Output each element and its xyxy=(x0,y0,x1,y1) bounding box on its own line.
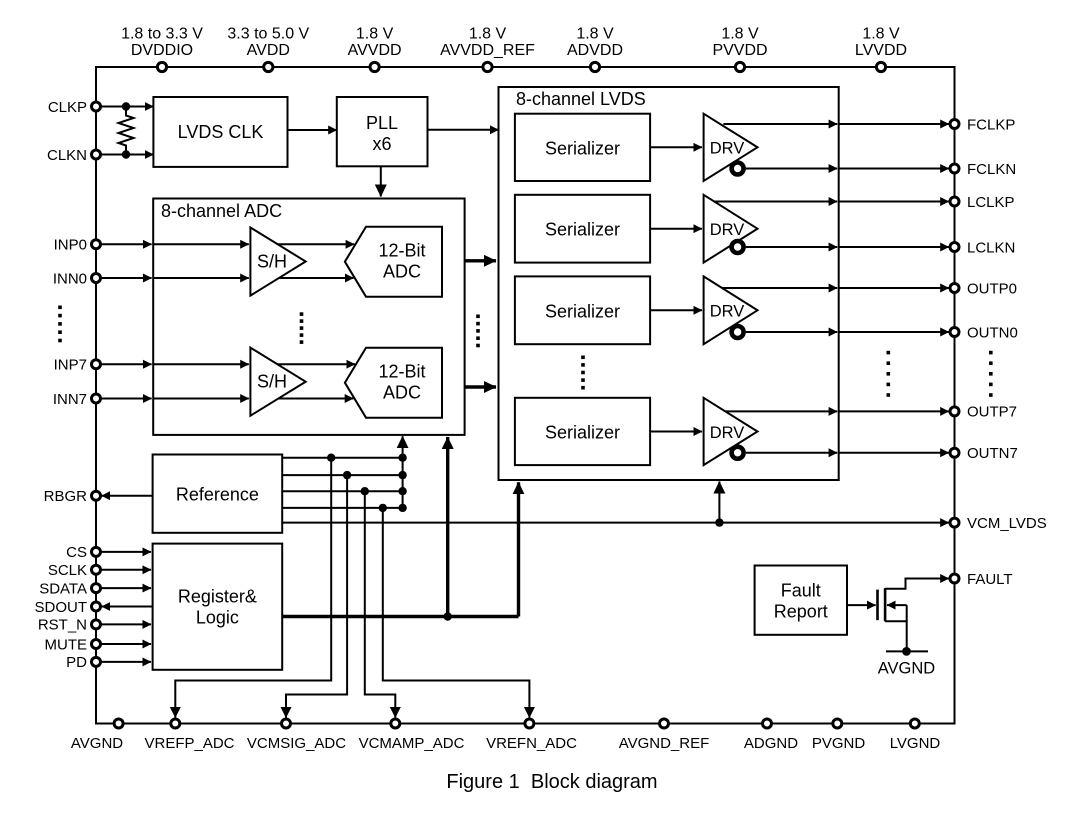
wire DRV 4 N output xyxy=(746,452,837,454)
wire PLL to LVDS block xyxy=(428,129,499,131)
wire SDATA to Register xyxy=(100,587,151,589)
pin ADGND xyxy=(744,719,798,752)
svg-text:ADC: ADC xyxy=(383,262,421,282)
svg-text:S/H: S/H xyxy=(257,372,287,392)
wire VREFP_ADC net xyxy=(175,458,331,718)
power pin AVVDD xyxy=(348,26,402,72)
svg-text:DRV: DRV xyxy=(710,140,745,158)
pin OUTN0 xyxy=(950,324,1018,341)
wire LVDS CLK to PLL xyxy=(288,129,337,131)
svg-text:8-channel ADC: 8-channel ADC xyxy=(161,201,282,221)
svg-text:FCLKP: FCLKP xyxy=(967,116,1015,133)
svg-text:1.8 V: 1.8 V xyxy=(356,26,394,43)
svg-text:SCLK: SCLK xyxy=(48,562,87,579)
ellipsis serializers xyxy=(581,356,585,360)
ellipsis input channels xyxy=(58,306,62,310)
pin VCM_LVDS xyxy=(950,515,1047,532)
ellipsis outputs inner xyxy=(887,351,891,355)
resistor termination (CLKP-CLKN) xyxy=(119,107,134,155)
wire DRV 1 N output xyxy=(746,168,837,170)
svg-text:12-Bit: 12-Bit xyxy=(378,362,425,382)
wire DRV 1 P output to pin xyxy=(839,123,949,125)
svg-text:LVGND: LVGND xyxy=(890,735,941,752)
junction Reference bus 2 xyxy=(398,471,406,479)
op-amp S/H (ch0) xyxy=(250,228,305,296)
pin OUTP0 xyxy=(950,280,1017,297)
wire Reference to RBGR xyxy=(102,495,153,497)
wire SCLK to Register xyxy=(100,569,151,571)
junction CLKN-resistor xyxy=(122,150,130,158)
power pin AVDD xyxy=(227,26,309,72)
block 8-channel ADC xyxy=(153,199,464,435)
wire DRV 2 P output xyxy=(714,201,837,203)
pin AVGND xyxy=(71,719,123,752)
svg-text:AVGND_REF: AVGND_REF xyxy=(619,735,710,752)
driver DRV 1 xyxy=(704,114,758,181)
wire INN0 to S/H xyxy=(153,277,249,279)
block PLL x6 xyxy=(337,97,428,166)
pin VREFN_ADC xyxy=(486,719,577,752)
svg-text:1.8 to 3.3 V: 1.8 to 3.3 V xyxy=(121,26,203,43)
svg-text:AVGND: AVGND xyxy=(878,659,936,677)
pin INP7 xyxy=(54,357,101,374)
wire INN7 to S/H xyxy=(153,398,249,400)
pin MUTE xyxy=(45,636,101,653)
wire DRV 4 P output xyxy=(725,410,837,412)
svg-text:LVDS CLK: LVDS CLK xyxy=(178,122,264,142)
svg-text:OUTN0: OUTN0 xyxy=(967,324,1018,341)
junction Reference bus 1 xyxy=(398,454,406,462)
svg-text:Figure 1 Block diagram: Figure 1 Block diagram xyxy=(446,771,657,793)
svg-text:1.8 V: 1.8 V xyxy=(862,26,900,43)
block Serializer 3 xyxy=(515,276,650,344)
svg-text:RBGR: RBGR xyxy=(44,488,88,505)
block 12-Bit ADC (ch7) xyxy=(345,348,442,418)
pin LVGND xyxy=(890,719,941,752)
wire Reference out 1 xyxy=(282,457,402,459)
wire INP7 xyxy=(100,363,151,365)
svg-text:CLKN: CLKN xyxy=(47,147,87,164)
wire S/H to 12-Bit ADC (ch7 N) xyxy=(278,398,353,400)
svg-text:PVVDD: PVVDD xyxy=(712,42,767,59)
wire Serializer 3 to DRV xyxy=(650,309,702,311)
svg-text:1.8 V: 1.8 V xyxy=(576,26,614,43)
bus Register to ADC xyxy=(446,437,449,617)
svg-text:Logic: Logic xyxy=(196,608,239,628)
svg-text:INN7: INN7 xyxy=(53,391,87,408)
inversion bubble DRV 3 xyxy=(732,326,744,338)
svg-text:INP7: INP7 xyxy=(54,357,87,374)
pin SDATA xyxy=(39,580,100,597)
ellipsis ADC-LVDS buses xyxy=(476,315,480,319)
inversion bubble DRV 2 xyxy=(732,241,744,253)
power pin DVDDIO xyxy=(121,26,203,72)
svg-text:VREFP_ADC: VREFP_ADC xyxy=(144,735,234,752)
junction CLKP-resistor xyxy=(122,102,130,110)
svg-text:Reference: Reference xyxy=(176,485,259,505)
svg-text:Serializer: Serializer xyxy=(545,301,620,321)
pin SDOUT xyxy=(35,599,101,616)
wire VCM net (Reference to VCM_LVDS) xyxy=(282,522,949,524)
svg-text:VCM_LVDS: VCM_LVDS xyxy=(967,515,1047,532)
pin PVGND xyxy=(812,719,866,752)
svg-text:OUTP0: OUTP0 xyxy=(967,280,1017,297)
svg-text:LVVDD: LVVDD xyxy=(855,42,907,59)
block Register&Logic xyxy=(153,544,283,670)
transistor Q1 gate bar xyxy=(876,590,879,621)
svg-text:VCMAMP_ADC: VCMAMP_ADC xyxy=(359,735,465,752)
svg-text:VCMSIG_ADC: VCMSIG_ADC xyxy=(247,735,346,752)
pin VCMSIG_ADC xyxy=(247,719,346,752)
svg-text:1.8 V: 1.8 V xyxy=(469,26,507,43)
wire INP0 to S/H xyxy=(153,243,249,245)
wire Fault Report to gate xyxy=(847,604,876,606)
svg-text:Register&: Register& xyxy=(178,587,257,607)
svg-text:INP0: INP0 xyxy=(54,237,87,254)
svg-text:OUTP7: OUTP7 xyxy=(967,404,1017,421)
wire INN7 xyxy=(100,398,151,400)
power pin ADVDD xyxy=(567,26,623,72)
inversion bubble DRV 1 xyxy=(732,163,744,175)
pin FCLKP xyxy=(950,116,1015,133)
wire DRV 4 N output to pin xyxy=(839,452,949,454)
wire VCMAMP_ADC net xyxy=(365,491,396,717)
pin SCLK xyxy=(48,562,101,579)
svg-text:DRV: DRV xyxy=(710,303,745,321)
bus ADC to LVDS (lower) xyxy=(465,385,496,388)
pin OUTP7 xyxy=(950,404,1017,421)
block Serializer 1 xyxy=(515,114,650,181)
svg-text:8-channel LVDS: 8-channel LVDS xyxy=(516,89,646,109)
pin FAULT xyxy=(950,571,1013,588)
svg-text:ADC: ADC xyxy=(383,383,421,403)
pin OUTN7 xyxy=(950,445,1018,462)
svg-text:AVVDD: AVVDD xyxy=(348,42,402,59)
wire Reference out 2 xyxy=(282,474,402,476)
wire DRV 2 N output xyxy=(746,246,837,248)
wire DRV 3 N output xyxy=(746,331,837,333)
junction Reference out 1 drop xyxy=(327,454,335,462)
pin INN0 xyxy=(53,270,101,287)
svg-text:DRV: DRV xyxy=(710,221,745,239)
pin RST_N xyxy=(38,617,101,634)
junction Register bus xyxy=(444,612,452,620)
svg-text:SDATA: SDATA xyxy=(39,580,87,597)
svg-text:1.8 V: 1.8 V xyxy=(721,26,759,43)
svg-text:Report: Report xyxy=(774,602,828,622)
svg-text:Fault: Fault xyxy=(781,581,821,601)
pin LCLKP xyxy=(950,194,1015,211)
svg-text:S/H: S/H xyxy=(257,252,287,272)
wire Serializer 2 to DRV xyxy=(650,228,702,230)
pin CLKN xyxy=(47,147,101,164)
wire INP0 xyxy=(100,243,151,245)
svg-text:OUTN7: OUTN7 xyxy=(967,445,1018,462)
wire MUTE to Register xyxy=(100,643,151,645)
ellipsis outputs outer xyxy=(989,351,993,355)
svg-text:VREFN_ADC: VREFN_ADC xyxy=(486,735,577,752)
op-amp S/H (ch7) xyxy=(250,348,305,416)
wire Register to SDOUT xyxy=(102,606,153,608)
pin LCLKN xyxy=(950,239,1015,256)
wire Serializer 4 to DRV xyxy=(650,431,702,433)
svg-text:DVDDIO: DVDDIO xyxy=(131,42,193,59)
wire S/H to 12-Bit ADC (ch0 P) xyxy=(278,243,355,245)
wire INP7 to S/H xyxy=(153,363,249,365)
power pin AVVDD_REF xyxy=(440,26,535,72)
ground AVGND xyxy=(878,647,936,677)
pin CS xyxy=(66,544,100,561)
svg-text:AVVDD_REF: AVVDD_REF xyxy=(440,42,535,59)
wire CLKP to LVDS CLK xyxy=(100,106,153,108)
pin INN7 xyxy=(53,391,101,408)
junction Reference bus 4 xyxy=(398,504,406,512)
svg-text:MUTE: MUTE xyxy=(45,636,88,653)
svg-text:FCLKN: FCLKN xyxy=(967,161,1016,178)
pin RBGR xyxy=(44,488,101,505)
junction Reference out 3 drop xyxy=(361,487,369,495)
pin INP0 xyxy=(54,237,101,254)
wire Q1 source arrow xyxy=(887,604,907,606)
wire DRV 1 N output to pin xyxy=(839,168,949,170)
wire Reference out 3 xyxy=(282,490,402,492)
inversion bubble DRV 4 xyxy=(732,447,744,459)
wire DRV 2 N output to pin xyxy=(839,246,949,248)
pin VCMAMP_ADC xyxy=(359,719,465,752)
svg-text:ADGND: ADGND xyxy=(744,735,798,752)
block 12-Bit ADC (ch0) xyxy=(345,227,442,297)
power pin PVVDD xyxy=(712,26,767,72)
svg-text:RST_N: RST_N xyxy=(38,617,87,634)
svg-text:3.3 to 5.0 V: 3.3 to 5.0 V xyxy=(227,26,309,43)
svg-text:PVGND: PVGND xyxy=(812,735,866,752)
wire VCMSIG_ADC net xyxy=(286,475,347,717)
wire CS to Register xyxy=(100,551,151,553)
pin AVGND_REF xyxy=(619,719,710,752)
driver DRV 3 xyxy=(704,276,758,344)
svg-text:LCLKN: LCLKN xyxy=(967,239,1015,256)
svg-text:LCLKP: LCLKP xyxy=(967,194,1015,211)
pin FCLKN xyxy=(950,161,1016,178)
pin CLKP xyxy=(48,99,101,116)
pin VREFP_ADC xyxy=(144,719,234,752)
wire PLL to ADC block xyxy=(380,166,382,196)
wire PD to Register xyxy=(100,661,151,663)
wire RST_N to Register xyxy=(100,623,151,625)
svg-text:FAULT: FAULT xyxy=(967,571,1013,588)
wire Reference out 4 xyxy=(282,507,402,509)
wire DRV 4 P output to pin xyxy=(839,410,949,412)
block Fault Report xyxy=(755,566,847,635)
svg-text:x6: x6 xyxy=(372,134,391,154)
wire INN0 xyxy=(100,277,151,279)
wire DRV 3 P output xyxy=(722,287,837,289)
wire Q1 bulk xyxy=(885,620,907,622)
wire VCM to LVDS block xyxy=(718,482,720,523)
svg-text:SDOUT: SDOUT xyxy=(35,599,88,616)
svg-text:AVDD: AVDD xyxy=(247,42,290,59)
wire VREFN_ADC net xyxy=(383,508,530,718)
block LVDS CLK xyxy=(153,97,287,167)
svg-text:PLL: PLL xyxy=(366,113,398,133)
svg-text:CLKP: CLKP xyxy=(48,99,87,116)
wire DRV 2 P output to pin xyxy=(839,201,949,203)
svg-text:Serializer: Serializer xyxy=(545,220,620,240)
wire CLKN to LVDS CLK xyxy=(100,154,153,156)
svg-text:AVGND: AVGND xyxy=(71,735,123,752)
block 8-channel LVDS xyxy=(499,87,839,480)
bus Register to LVDS xyxy=(517,482,520,616)
svg-text:PD: PD xyxy=(66,654,87,671)
pin PD xyxy=(66,654,100,671)
driver DRV 2 xyxy=(704,195,758,263)
wire Q1 source down xyxy=(906,605,908,651)
wire S/H to 12-Bit ADC (ch7 P) xyxy=(277,363,355,365)
svg-text:Serializer: Serializer xyxy=(545,423,620,443)
svg-text:Serializer: Serializer xyxy=(545,138,620,158)
bus ADC to LVDS (upper) xyxy=(465,259,496,262)
junction Reference out 2 drop xyxy=(343,471,351,479)
junction Reference out 4 drop xyxy=(379,504,387,512)
wire reference bus to ADC xyxy=(402,436,404,508)
wire DRV 1 P output xyxy=(723,123,837,125)
svg-text:12-Bit: 12-Bit xyxy=(378,241,425,261)
transistor Q1 channel bar xyxy=(884,588,887,621)
wire Q1 drain to FAULT xyxy=(885,579,949,589)
wire Serializer 1 to DRV xyxy=(650,146,702,148)
svg-text:CS: CS xyxy=(66,544,87,561)
wire DRV 3 N output to pin xyxy=(839,331,949,333)
junction Reference bus 3 xyxy=(398,487,406,495)
block Reference xyxy=(153,455,283,533)
power pin LVVDD xyxy=(855,26,907,72)
ellipsis ADC channels xyxy=(300,312,304,316)
chip boundary xyxy=(96,67,955,724)
block Serializer 2 xyxy=(515,195,650,263)
wire S/H to 12-Bit ADC (ch0 N) xyxy=(279,277,354,279)
svg-text:ADVDD: ADVDD xyxy=(567,42,623,59)
svg-text:DRV: DRV xyxy=(710,424,745,442)
junction VCM to LVDS xyxy=(715,518,723,526)
svg-text:INN0: INN0 xyxy=(53,270,87,287)
driver DRV 4 xyxy=(704,398,758,465)
bus Register control xyxy=(282,615,518,618)
wire DRV 3 P output to pin xyxy=(839,287,949,289)
block Serializer 4 xyxy=(515,398,650,465)
